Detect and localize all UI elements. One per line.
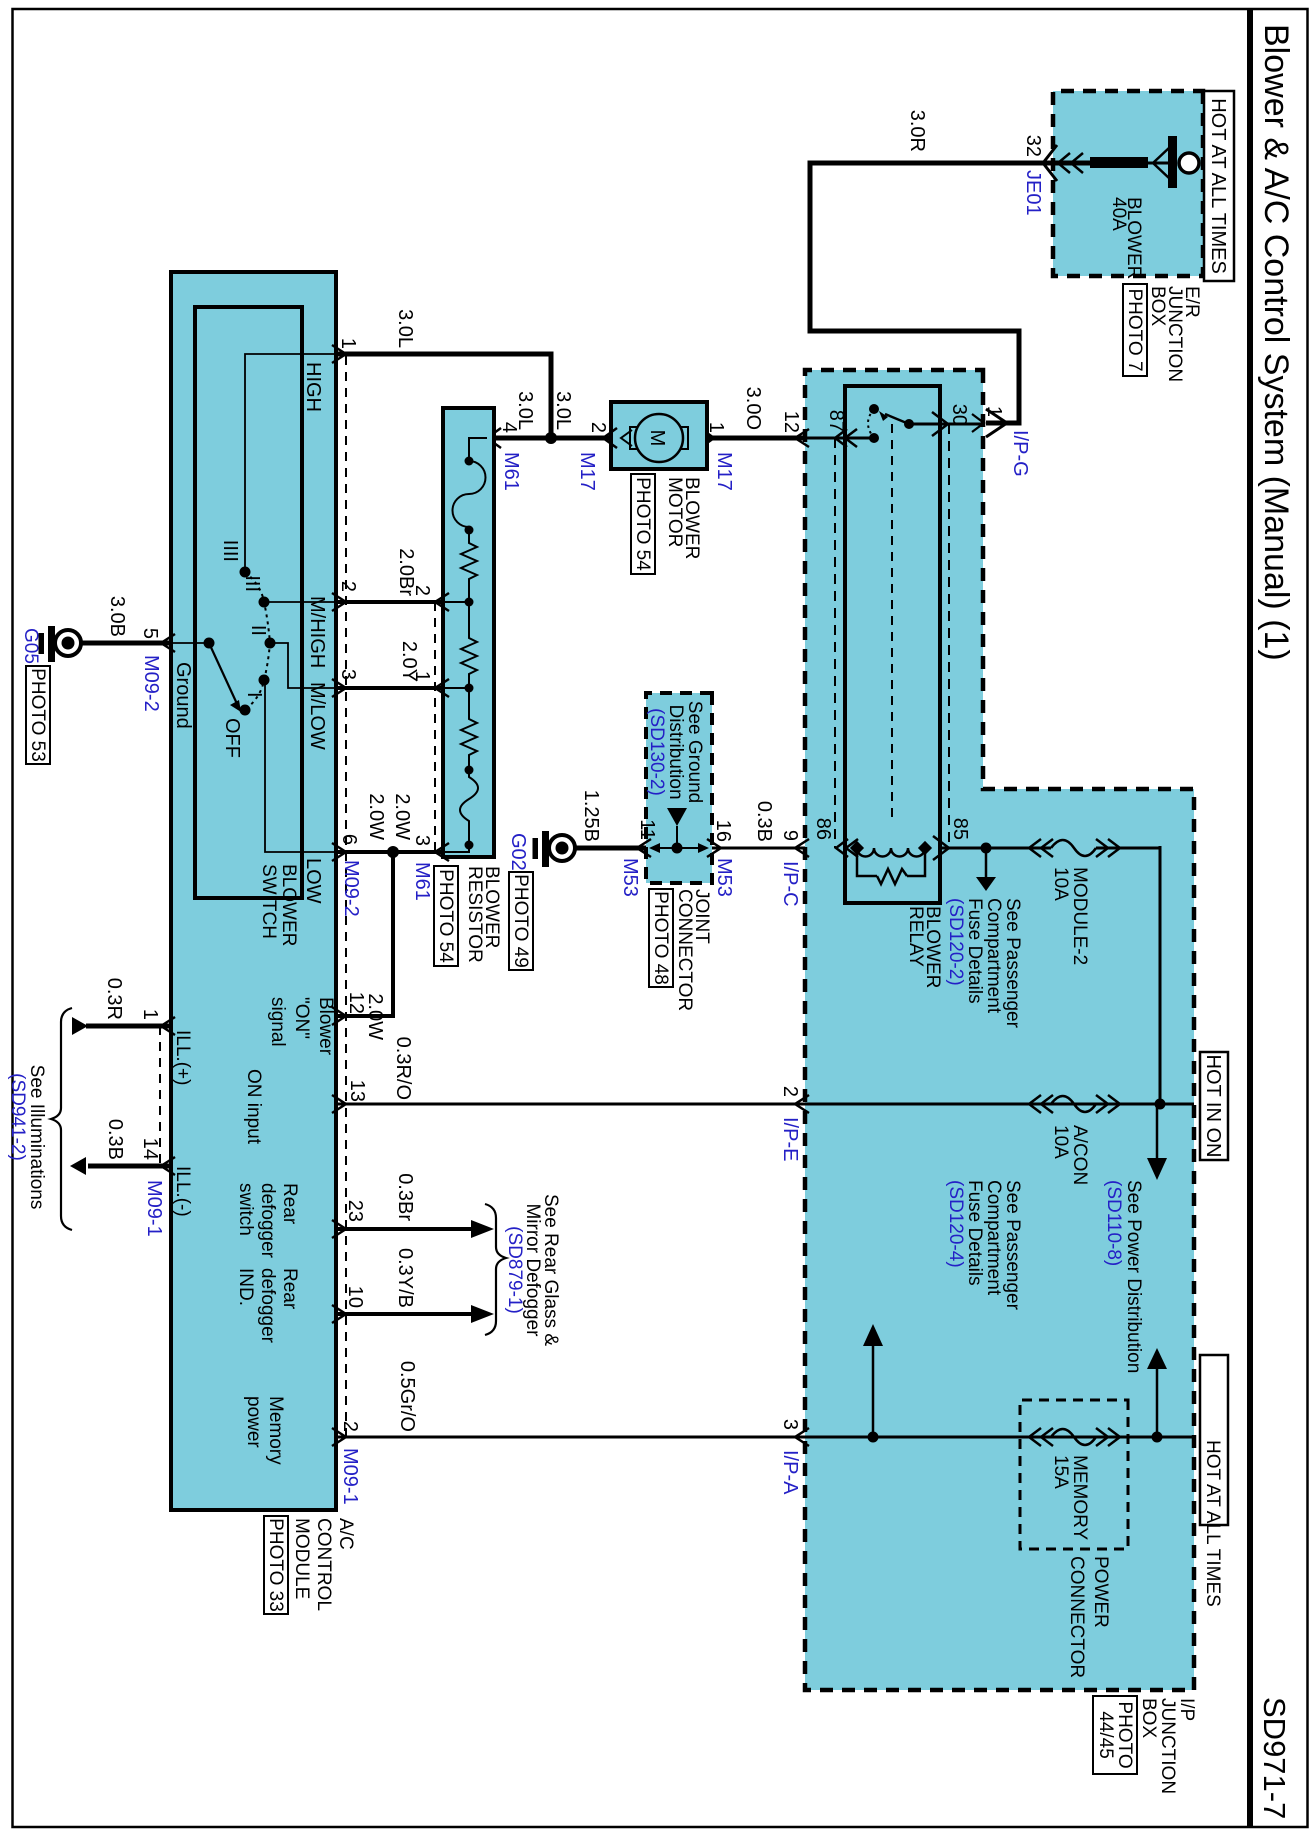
I/P JUNCTION BOX label xyxy=(1138,1698,1197,1794)
svg-text:I: I xyxy=(243,692,265,698)
svg-text:M61: M61 xyxy=(500,452,522,491)
fuse A/CON 10A xyxy=(1029,1095,1120,1185)
svg-text:PHOTO 7: PHOTO 7 xyxy=(1124,288,1145,371)
relay coil xyxy=(850,841,932,857)
fuse BLOWER 40A xyxy=(1052,136,1199,279)
svg-text:CONNECTOR: CONNECTOR xyxy=(674,889,695,1011)
svg-text:LOW: LOW xyxy=(302,858,324,904)
See Ground Distribution label xyxy=(646,701,705,803)
connector M09-1 pin 1 xyxy=(139,1009,175,1035)
connector I/P-G pin 1 xyxy=(972,406,1031,477)
switch contact I xyxy=(243,675,270,698)
svg-text:0.3B: 0.3B xyxy=(104,1119,126,1160)
svg-text:Rear: Rear xyxy=(279,1268,300,1310)
connector M09-2 pin 2 xyxy=(332,581,359,611)
relay pin 87 wire xyxy=(803,410,874,447)
relay pin 30 wire xyxy=(909,404,983,436)
svg-text:16: 16 xyxy=(712,820,734,842)
svg-text:3.0L: 3.0L xyxy=(552,391,574,430)
svg-text:12: 12 xyxy=(345,992,367,1014)
svg-text:M/HIGH: M/HIGH xyxy=(306,596,328,668)
svg-text:Compartment: Compartment xyxy=(983,1180,1004,1296)
svg-text:POWER: POWER xyxy=(1090,1556,1111,1628)
svg-text:(SD879-1): (SD879-1) xyxy=(504,1226,525,1314)
svg-text:5: 5 xyxy=(139,628,161,639)
switch contact IIII xyxy=(219,540,251,578)
svg-text:"ON": "ON" xyxy=(291,997,312,1039)
svg-text:4: 4 xyxy=(498,422,520,433)
svg-text:Memory: Memory xyxy=(265,1396,286,1465)
relay pin 86 chevrons xyxy=(812,818,858,857)
switch contact OFF xyxy=(221,705,251,759)
svg-text:I/P: I/P xyxy=(1176,1698,1197,1721)
PHOTO 54 label (resistor) xyxy=(434,866,458,966)
svg-text:87: 87 xyxy=(825,410,847,432)
svg-text:3: 3 xyxy=(411,835,433,846)
svg-text:MOTOR: MOTOR xyxy=(664,477,685,547)
svg-text:G05: G05 xyxy=(20,628,41,664)
svg-text:PHOTO: PHOTO xyxy=(1114,1701,1135,1768)
svg-text:G02: G02 xyxy=(507,833,529,871)
connector M09-2 pin 10 xyxy=(332,1286,366,1323)
svg-text:85: 85 xyxy=(949,818,971,840)
svg-text:ILL.(-): ILL.(-) xyxy=(172,1166,193,1217)
svg-text:Rear: Rear xyxy=(279,1183,300,1225)
svg-text:Fuse Details: Fuse Details xyxy=(964,1180,985,1286)
fuse MEMORY 15A xyxy=(1029,1428,1120,1540)
svg-text:See Ground: See Ground xyxy=(684,701,705,803)
svg-text:M09-1: M09-1 xyxy=(339,1448,361,1505)
svg-text:OFF: OFF xyxy=(221,718,243,758)
svg-text:HIGH: HIGH xyxy=(302,362,324,412)
switch internal wire pin3 to contact II xyxy=(270,643,336,688)
relay contact A xyxy=(869,404,879,414)
svg-text:2: 2 xyxy=(779,1086,801,1097)
PHOTO 44/45 label xyxy=(1093,1696,1137,1774)
svg-text:86: 86 xyxy=(812,818,834,840)
connector I/P-E pin 2 xyxy=(779,1086,809,1162)
svg-text:CONNECTOR: CONNECTOR xyxy=(1066,1556,1087,1678)
connector M61 pin 3 xyxy=(411,835,449,901)
svg-text:power: power xyxy=(243,1396,264,1448)
svg-text:3: 3 xyxy=(337,669,359,680)
svg-text:Ground: Ground xyxy=(172,662,194,729)
svg-text:0.3Br: 0.3Br xyxy=(394,1173,416,1221)
I/P junction box xyxy=(805,370,1194,1690)
blower relay box xyxy=(845,386,940,903)
switch common wire to pin 5 xyxy=(171,642,209,644)
svg-text:PHOTO 33: PHOTO 33 xyxy=(265,1518,286,1612)
I/P box internal dashed bus top xyxy=(948,424,950,848)
connector I/P-C pin 9 xyxy=(779,830,809,907)
svg-text:I/P-C: I/P-C xyxy=(779,861,801,907)
node junction 2.0W xyxy=(387,846,399,858)
svg-text:JUNCTION: JUNCTION xyxy=(1157,1698,1178,1794)
ground G05 xyxy=(20,626,81,664)
connector M53 pin 16 xyxy=(707,820,735,897)
blower switch inner box xyxy=(195,307,302,898)
svg-text:3.0L: 3.0L xyxy=(394,309,416,348)
svg-text:CONTROL: CONTROL xyxy=(313,1518,334,1611)
blower resistor internal chain xyxy=(443,438,487,852)
svg-text:M09-1: M09-1 xyxy=(143,1180,165,1237)
bus wire to A/CON column xyxy=(1159,846,1162,1104)
A/C CONTROL MODULE label xyxy=(291,1518,356,1611)
svg-text:30: 30 xyxy=(948,404,970,426)
svg-text:M17: M17 xyxy=(576,452,598,491)
svg-text:0.5Gr/O: 0.5Gr/O xyxy=(396,1361,418,1432)
connector M09-2 pin 23 xyxy=(332,1200,366,1238)
svg-text:II: II xyxy=(247,625,269,636)
wire 3.0L blower switch pin 1 to junction xyxy=(336,309,551,438)
svg-text:SWITCH: SWITCH xyxy=(258,864,279,939)
M61 connector dashed line xyxy=(434,602,436,852)
E/R JUNCTION BOX label xyxy=(1147,286,1202,382)
svg-text:MODULE: MODULE xyxy=(291,1518,312,1599)
node SD120-4 branch xyxy=(863,1324,883,1443)
svg-text:BLOWER: BLOWER xyxy=(278,864,299,946)
connector M09-2 pin 3 xyxy=(332,669,359,697)
See Passenger Compartment label (SD120-2) xyxy=(945,898,1023,1029)
svg-text:2.0W: 2.0W xyxy=(365,793,387,840)
svg-text:Distribution: Distribution xyxy=(665,704,686,799)
svg-text:0.3R/O: 0.3R/O xyxy=(392,1037,414,1100)
svg-text:M09-2: M09-2 xyxy=(140,655,162,712)
wire 0.5Gr/O memory power xyxy=(336,1361,805,1437)
svg-text:PHOTO 54: PHOTO 54 xyxy=(435,869,456,963)
wire 3.0L motor to resistor pin 4 xyxy=(494,391,611,438)
node memory junction xyxy=(1147,1348,1167,1443)
svg-text:2: 2 xyxy=(339,1421,361,1432)
svg-text:(SD130-2): (SD130-2) xyxy=(646,708,667,796)
svg-text:10A: 10A xyxy=(1050,1125,1071,1159)
svg-text:(SD941-2): (SD941-2) xyxy=(7,1073,28,1161)
svg-text:M09-2: M09-2 xyxy=(340,860,362,917)
wire 3.0R from JE01 to I/P-G xyxy=(810,110,1051,423)
svg-text:switch: switch xyxy=(235,1183,256,1236)
relay contact common (pin 30 side) xyxy=(879,411,914,429)
svg-text:3.0B: 3.0B xyxy=(106,596,128,637)
Rear defogger IND label xyxy=(235,1268,300,1344)
svg-text:1: 1 xyxy=(337,338,359,349)
wire 1.25B joint connector to G02 xyxy=(574,790,646,848)
wire 2.0W junction to switch pin 12 xyxy=(336,852,393,1040)
joint connector ground distribution arrow xyxy=(667,808,687,848)
M09 connector dashed line (top) xyxy=(345,356,347,1437)
BLOWER MOTOR label xyxy=(664,477,702,559)
POWER CONNECTOR label xyxy=(1066,1556,1111,1678)
connector M09-1 pin 2 (memory power) xyxy=(332,1421,361,1505)
wire HOT AT ALL TIMES down to I/P-A xyxy=(1051,1436,1194,1439)
PHOTO 33 label xyxy=(264,1516,288,1614)
blower motor M xyxy=(611,402,707,469)
connector M61 pin 4 xyxy=(470,422,522,491)
svg-text:Compartment: Compartment xyxy=(983,898,1004,1014)
connector I/P-A pin 3 xyxy=(779,1419,809,1495)
svg-text:BOX: BOX xyxy=(1147,286,1168,326)
svg-text:M53: M53 xyxy=(619,858,641,897)
svg-text:See Illuminations: See Illuminations xyxy=(26,1065,47,1210)
svg-text:IND.: IND. xyxy=(235,1268,256,1306)
svg-text:A/C: A/C xyxy=(335,1518,356,1550)
svg-text:10A: 10A xyxy=(1050,867,1071,901)
svg-text:HOT IN ON: HOT IN ON xyxy=(1202,1055,1224,1158)
switch rotor arm with arrow xyxy=(204,638,242,713)
svg-text:I/P-E: I/P-E xyxy=(779,1117,801,1161)
HOT AT ALL TIMES label (I/P) xyxy=(1200,1355,1228,1607)
svg-text:6: 6 xyxy=(338,834,360,845)
svg-text:defogger: defogger xyxy=(257,1268,278,1344)
svg-text:See Power Distribution: See Power Distribution xyxy=(1123,1180,1144,1373)
See Illuminations label xyxy=(7,1065,47,1210)
svg-text:Fuse Details: Fuse Details xyxy=(964,898,985,1004)
svg-text:See Passenger: See Passenger xyxy=(1002,1180,1023,1311)
node junction 3.0L xyxy=(545,432,557,444)
svg-text:11: 11 xyxy=(636,819,658,840)
node pin 85 branch xyxy=(976,843,996,892)
connector M09-1 pin 14 xyxy=(139,1138,175,1237)
M09-1 connector dashed line (bottom) xyxy=(159,1026,161,1166)
wire 3.0O motor pin1 to I/P pin 12 xyxy=(707,387,805,438)
svg-text:0.3Y/B: 0.3Y/B xyxy=(394,1248,416,1308)
svg-text:SD971-7: SD971-7 xyxy=(1257,1697,1292,1819)
svg-text:(SD120-4): (SD120-4) xyxy=(945,1180,966,1268)
svg-text:PHOTO 48: PHOTO 48 xyxy=(650,891,671,985)
BLOWER RELAY label xyxy=(905,906,943,988)
relay contact dotted arc xyxy=(868,409,874,438)
connector M09-2 pin 12 xyxy=(332,992,367,1025)
switch internal wire pin2 to contact III xyxy=(264,601,336,603)
svg-text:PHOTO 49: PHOTO 49 xyxy=(510,874,531,968)
svg-text:13: 13 xyxy=(346,1080,368,1102)
svg-text:IIII: IIII xyxy=(219,540,241,562)
wire HOT IN ON down to I/P-E xyxy=(1051,1103,1194,1106)
svg-text:signal: signal xyxy=(267,997,288,1047)
svg-text:M17: M17 xyxy=(713,452,735,491)
svg-text:1: 1 xyxy=(139,1009,161,1020)
switch contact dashed arc xyxy=(245,572,270,710)
title separator line xyxy=(1247,9,1253,1827)
svg-text:0.3R: 0.3R xyxy=(103,978,125,1020)
svg-text:44/45: 44/45 xyxy=(1095,1711,1116,1759)
See Power Distribution label xyxy=(1103,1180,1144,1373)
connector M17 pin 1 (motor top) xyxy=(685,422,735,491)
See Passenger Compartment label (SD120-4) xyxy=(945,1180,1023,1311)
svg-text:14: 14 xyxy=(139,1138,161,1160)
svg-text:HOT AT ALL TIMES: HOT AT ALL TIMES xyxy=(1202,1440,1223,1607)
wire 3.0B pin 5 to G05 xyxy=(80,596,171,643)
svg-text:23: 23 xyxy=(344,1200,366,1222)
blower resistor box xyxy=(443,408,494,857)
joint connector internal arrows xyxy=(649,843,709,854)
memory fuse dashed box xyxy=(1020,1400,1128,1549)
svg-text:1.25B: 1.25B xyxy=(580,790,602,842)
connector M09-2 pin 5 xyxy=(139,628,175,712)
switch contact II xyxy=(247,625,276,649)
svg-text:(SD110-8): (SD110-8) xyxy=(1103,1180,1124,1266)
svg-text:3.0R: 3.0R xyxy=(906,110,928,152)
svg-text:Blower: Blower xyxy=(315,997,336,1056)
svg-text:M61: M61 xyxy=(411,862,433,901)
connector M61 pin 1 xyxy=(411,671,449,697)
PHOTO 48 label xyxy=(649,889,673,987)
wire module-2 fuse to HOT IN ON bus xyxy=(1096,847,1160,850)
svg-text:2.0W: 2.0W xyxy=(391,793,413,840)
E/R junction box xyxy=(1053,91,1203,276)
svg-text:HOT AT ALL TIMES: HOT AT ALL TIMES xyxy=(1207,98,1229,274)
svg-text:(SD120-2): (SD120-2) xyxy=(945,898,966,986)
svg-text:RESISTOR: RESISTOR xyxy=(464,866,485,963)
fuse MODULE-2 10A xyxy=(1029,839,1120,965)
svg-text:9: 9 xyxy=(779,830,801,841)
wire memory fuse lower segment xyxy=(805,1436,1051,1439)
wire 2.0Br resistor pin2 to switch pin2 xyxy=(336,548,443,602)
switch internal wire pin1 to contact IIII xyxy=(245,354,336,572)
svg-text:A/CON: A/CON xyxy=(1069,1125,1090,1185)
relay armature linkage dashed xyxy=(891,424,893,818)
wire 0.3R/O pin 13 to I/P-E xyxy=(336,1037,805,1104)
svg-text:40A: 40A xyxy=(1108,197,1129,231)
svg-text:12: 12 xyxy=(780,411,802,433)
relay pin 85 wire xyxy=(933,818,1051,860)
svg-text:ILL.(+): ILL.(+) xyxy=(172,1030,193,1085)
connector M09-2 pin 13 xyxy=(332,1080,368,1113)
svg-text:2: 2 xyxy=(337,581,359,592)
svg-text:BOX: BOX xyxy=(1138,1698,1159,1738)
JOINT CONNECTOR label xyxy=(674,889,712,1011)
connector JE01 pin 32 xyxy=(1022,135,1057,216)
joint connector box xyxy=(646,693,712,883)
svg-text:15A: 15A xyxy=(1050,1455,1071,1489)
wire 0.3R ILL(+) xyxy=(72,978,171,1035)
svg-text:M53: M53 xyxy=(713,858,735,897)
svg-text:RELAY: RELAY xyxy=(905,906,926,967)
svg-text:PHOTO 53: PHOTO 53 xyxy=(27,668,48,762)
HOT IN ON label xyxy=(1200,1052,1228,1160)
See Rear Glass label xyxy=(504,1194,561,1346)
PHOTO 7 label xyxy=(1123,284,1147,376)
svg-text:ON input: ON input xyxy=(243,1069,264,1145)
svg-text:3: 3 xyxy=(779,1419,801,1430)
relay contact C (pin 87 side) xyxy=(869,433,879,443)
wire A/CON fuse lower segment xyxy=(805,1103,1051,1106)
PHOTO 53 label xyxy=(26,666,50,764)
connector M17 pin 2 (motor bottom) xyxy=(576,422,632,491)
connector M53 pin 11 xyxy=(619,819,658,897)
svg-text:10: 10 xyxy=(344,1286,366,1308)
wire 0.3Br rear defogger switch xyxy=(336,1173,494,1238)
Rear defogger switch label xyxy=(235,1183,300,1259)
connector M61 pin 2 xyxy=(411,585,449,611)
switch internal wire pin6 to contact I xyxy=(265,680,336,852)
connector I/P box pin 12 xyxy=(780,411,809,447)
Memory power label xyxy=(243,1396,286,1465)
svg-text:0.3B: 0.3B xyxy=(753,801,775,842)
connector M09-2 pin 1 xyxy=(332,338,359,363)
svg-text:MEMORY: MEMORY xyxy=(1069,1455,1090,1540)
svg-text:I/P-G: I/P-G xyxy=(1009,430,1031,477)
ground G02 xyxy=(507,831,575,871)
BLOWER RESISTOR label xyxy=(464,866,502,963)
PHOTO 54 label (motor) xyxy=(631,474,655,574)
svg-text:MODULE-2: MODULE-2 xyxy=(1069,867,1090,965)
rear defogger brace xyxy=(485,1204,506,1335)
relay coil parallel resistor xyxy=(857,848,925,884)
svg-text:JE01: JE01 xyxy=(1022,170,1044,216)
switch contact III xyxy=(241,575,270,607)
HOT AT ALL TIMES label (E/R) xyxy=(1204,91,1234,281)
See Illuminations brace xyxy=(51,1008,72,1230)
svg-text:I/P-A: I/P-A xyxy=(779,1450,801,1495)
connector M09-2 pin 6 xyxy=(332,834,362,917)
I/P box internal dashed bus bottom xyxy=(834,438,836,848)
svg-text:2.0Y: 2.0Y xyxy=(398,641,420,682)
node HOT IN ON junction xyxy=(1147,1099,1167,1181)
svg-text:M: M xyxy=(646,430,668,447)
wire 0.3B I/P-C pin 9 to joint connector xyxy=(712,801,805,848)
BLOWER SWITCH label xyxy=(258,864,299,946)
svg-text:See Passenger: See Passenger xyxy=(1002,898,1023,1029)
svg-text:1: 1 xyxy=(983,406,1005,417)
wire 0.3B ILL(-) xyxy=(70,1119,171,1175)
PHOTO 49 label xyxy=(509,872,533,970)
svg-text:Blower & A/C Control System (M: Blower & A/C Control System (Manual) (1) xyxy=(1257,24,1295,661)
svg-text:defogger: defogger xyxy=(257,1183,278,1259)
wire 0.3Y/B rear defogger IND xyxy=(336,1248,494,1323)
svg-text:2.0Br: 2.0Br xyxy=(395,548,417,596)
svg-text:2: 2 xyxy=(587,422,609,433)
svg-text:32: 32 xyxy=(1022,135,1044,157)
wire 2.0Y resistor pin1 to switch pin3 xyxy=(336,641,443,688)
Blower ON signal label xyxy=(267,997,336,1056)
svg-text:3.0O: 3.0O xyxy=(742,387,764,430)
svg-text:M/LOW: M/LOW xyxy=(306,682,328,750)
svg-text:PHOTO 54: PHOTO 54 xyxy=(632,477,653,571)
wire 2.0W resistor pin3 to switch pin6 xyxy=(336,793,443,852)
A/C control module box xyxy=(171,272,336,1510)
